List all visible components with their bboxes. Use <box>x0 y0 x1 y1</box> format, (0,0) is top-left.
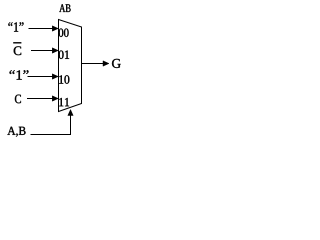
node "1" (constant input to pin 10) <box>10 70 29 79</box>
mux U1 body (4-to-1 multiplexer trapezoid) <box>59 20 82 112</box>
node C-bar (complemented C input to pin 01) <box>14 46 21 55</box>
arrowhead input 01 <box>52 48 58 53</box>
overline of C-bar <box>13 42 21 44</box>
node G (output label) <box>112 59 121 68</box>
net label AB (select bus name above mux) <box>59 4 70 12</box>
pin label 10 <box>59 75 69 83</box>
pin label 01 <box>59 50 69 58</box>
arrowhead input 00 <box>52 26 58 31</box>
wire input 11 <box>27 98 57 100</box>
wire output G <box>82 63 108 65</box>
wire input 01 <box>31 50 57 52</box>
pin label 00 <box>59 28 69 36</box>
arrowhead input 11 <box>52 96 58 101</box>
node "1" (constant input to pin 00) <box>8 22 23 31</box>
node A,B (select signals label) <box>7 127 25 137</box>
node C (input to pin 11) <box>15 95 21 104</box>
arrowhead input 10 <box>52 74 58 79</box>
wire select horizontal segment <box>31 134 72 136</box>
arrowhead output G <box>103 61 109 66</box>
wire select vertical segment <box>70 115 72 136</box>
wire input 10 <box>28 76 58 78</box>
wire input 00 <box>29 28 58 30</box>
pin label 11 <box>59 98 69 106</box>
arrowhead select (into mux bottom) <box>68 110 73 116</box>
